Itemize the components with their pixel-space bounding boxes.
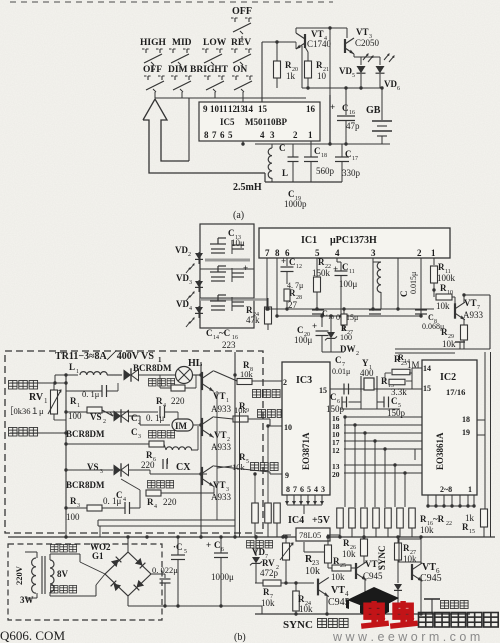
svg-text:0.068μ: 0.068μ — [422, 322, 444, 331]
svg-text:R: R — [318, 257, 325, 267]
svg-text:HIGH: HIGH — [140, 38, 166, 48]
svg-text:10: 10 — [317, 71, 327, 81]
svg-text:47p: 47p — [346, 121, 360, 131]
svg-text:2: 2 — [283, 378, 287, 387]
svg-text:0. 1μ: 0. 1μ — [103, 496, 122, 506]
svg-text:100μ: 100μ — [339, 279, 358, 289]
svg-text:R: R — [316, 60, 323, 70]
svg-text:R: R — [381, 376, 388, 386]
svg-text:0.015μ: 0.015μ — [409, 272, 418, 294]
svg-text:VD: VD — [252, 547, 265, 557]
svg-text:4: 4 — [260, 130, 265, 140]
svg-text:C: C — [279, 143, 286, 153]
svg-text:3W: 3W — [20, 595, 34, 605]
svg-text:R: R — [298, 594, 305, 604]
svg-text:5: 5 — [352, 73, 355, 79]
svg-text:SYNC: SYNC — [377, 545, 387, 570]
svg-text:MID: MID — [172, 38, 192, 48]
svg-text:400: 400 — [360, 368, 374, 378]
svg-text:R: R — [70, 496, 77, 506]
svg-text:VD: VD — [176, 299, 189, 309]
svg-text:VT: VT — [422, 562, 436, 573]
svg-text:2~8: 2~8 — [440, 485, 452, 494]
svg-text:18: 18 — [462, 415, 470, 424]
svg-text:C: C — [228, 228, 235, 238]
svg-text:1: 1 — [76, 369, 79, 375]
svg-text:C2050: C2050 — [355, 38, 380, 48]
svg-text:1: 1 — [468, 485, 472, 494]
svg-text:6: 6 — [397, 86, 400, 92]
svg-text:3: 3 — [371, 248, 376, 258]
svg-text:RV: RV — [262, 558, 275, 568]
svg-text:BCR8DM: BCR8DM — [66, 480, 105, 490]
svg-text:+: + — [333, 264, 338, 274]
svg-text:R: R — [462, 522, 469, 532]
svg-text:G1: G1 — [92, 551, 104, 561]
svg-text:220V: 220V — [14, 565, 24, 585]
svg-text:7: 7 — [265, 248, 270, 258]
svg-text:3: 3 — [189, 280, 192, 286]
svg-text:11: 11 — [349, 269, 355, 275]
svg-text:C945: C945 — [363, 571, 383, 581]
svg-text:8: 8 — [204, 130, 209, 140]
svg-text:220: 220 — [171, 396, 185, 406]
svg-text:20: 20 — [332, 470, 340, 479]
svg-text:10k: 10k — [420, 525, 434, 535]
svg-text:C1740: C1740 — [307, 39, 332, 49]
svg-text:R: R — [263, 587, 270, 597]
svg-text:VT: VT — [214, 430, 227, 440]
svg-text:1000p: 1000p — [284, 199, 307, 209]
svg-text:C945: C945 — [420, 573, 442, 584]
svg-text:C: C — [297, 325, 304, 335]
svg-text:472p: 472p — [260, 568, 279, 578]
svg-text:R: R — [333, 556, 340, 566]
svg-text:VD: VD — [384, 79, 397, 89]
svg-text:CX: CX — [176, 462, 191, 473]
svg-text:+: + — [312, 321, 317, 331]
svg-text:C: C — [131, 413, 138, 423]
svg-text:8V: 8V — [57, 569, 69, 579]
svg-text:10k: 10k — [261, 598, 275, 608]
svg-text:TR11−3≈8A／400V VS: TR11−3≈8A／400V VS — [55, 349, 154, 362]
svg-text:11: 11 — [219, 104, 228, 114]
svg-text:10k: 10k — [342, 549, 356, 559]
svg-text:17: 17 — [352, 156, 358, 162]
svg-text:15: 15 — [258, 104, 268, 114]
svg-text:C: C — [289, 257, 296, 267]
svg-text:IC1: IC1 — [301, 235, 317, 246]
svg-text:R: R — [440, 283, 447, 293]
svg-text:ON: ON — [233, 65, 247, 75]
svg-text:Q606. COM: Q606. COM — [0, 628, 65, 643]
svg-text:1: 1 — [77, 403, 80, 409]
svg-text:VT: VT — [356, 27, 369, 37]
svg-text:RV: RV — [29, 392, 44, 403]
svg-text:C: C — [391, 396, 398, 406]
svg-text:SYNC: SYNC — [283, 619, 313, 631]
svg-text:Y: Y — [362, 358, 369, 368]
svg-text:1: 1 — [431, 248, 436, 258]
svg-text:10k: 10k — [240, 369, 254, 379]
svg-text:25: 25 — [340, 563, 346, 569]
svg-text:C: C — [342, 103, 349, 113]
svg-text:14: 14 — [404, 359, 410, 365]
svg-text:2: 2 — [103, 419, 106, 425]
svg-text:22: 22 — [446, 521, 452, 527]
svg-text:R: R — [343, 538, 350, 548]
svg-text:A933: A933 — [463, 310, 483, 320]
svg-text:47k: 47k — [246, 315, 260, 325]
svg-text:100: 100 — [340, 333, 352, 342]
svg-text:220: 220 — [141, 460, 155, 470]
svg-text:10k: 10k — [234, 405, 248, 415]
svg-text:IC4: IC4 — [288, 515, 304, 526]
svg-text:2: 2 — [188, 252, 191, 258]
svg-text:330p: 330p — [342, 168, 361, 178]
svg-text:6: 6 — [220, 130, 225, 140]
svg-text:IM: IM — [175, 421, 188, 431]
svg-text:560p: 560p — [316, 166, 335, 176]
svg-text:2: 2 — [293, 130, 298, 140]
svg-text:0.01μ: 0.01μ — [332, 367, 350, 376]
svg-text:+: + — [330, 102, 335, 112]
svg-text:8: 8 — [275, 248, 280, 258]
svg-text:R: R — [239, 452, 246, 462]
svg-text:~R: ~R — [433, 514, 445, 524]
svg-text:10k: 10k — [331, 572, 345, 582]
svg-text:4: 4 — [335, 248, 340, 258]
svg-text:5: 5 — [307, 485, 311, 494]
svg-text:3: 3 — [270, 130, 275, 140]
svg-text:+: + — [281, 256, 286, 266]
svg-text:1: 1 — [44, 397, 48, 405]
svg-text:L: L — [69, 362, 75, 372]
svg-text:EO3861A: EO3861A — [435, 432, 445, 470]
svg-text:C: C — [399, 291, 409, 298]
svg-text:BRIGHT: BRIGHT — [190, 65, 229, 75]
svg-text:C: C — [335, 355, 342, 365]
svg-text:(b): (b) — [234, 632, 246, 643]
svg-text:100: 100 — [66, 512, 80, 522]
svg-text:10k: 10k — [436, 301, 450, 311]
svg-text:M50110BP: M50110BP — [245, 117, 288, 127]
svg-text:R: R — [438, 262, 445, 272]
svg-text:10k: 10k — [442, 339, 456, 349]
svg-text:1k: 1k — [286, 71, 296, 81]
svg-text:VD: VD — [339, 66, 352, 76]
svg-text:VT: VT — [331, 585, 345, 596]
svg-text:2: 2 — [356, 351, 359, 357]
svg-text:+: + — [206, 540, 211, 550]
svg-text:5: 5 — [184, 549, 187, 555]
svg-text:LOW: LOW — [203, 38, 227, 48]
svg-text:8: 8 — [286, 485, 290, 494]
svg-text:12: 12 — [332, 446, 340, 455]
svg-text:4: 4 — [154, 504, 157, 510]
svg-text:12: 12 — [296, 264, 302, 270]
svg-text:R: R — [156, 396, 163, 406]
svg-text:+5V: +5V — [312, 515, 331, 526]
svg-text:15: 15 — [319, 386, 327, 395]
svg-text:IC3: IC3 — [296, 375, 312, 386]
svg-text:220: 220 — [163, 497, 177, 507]
svg-text:VD: VD — [176, 273, 189, 283]
svg-text:223: 223 — [222, 340, 236, 350]
svg-text:C: C — [214, 540, 221, 550]
svg-text:6: 6 — [300, 485, 304, 494]
svg-text:4: 4 — [189, 306, 192, 312]
svg-text:18: 18 — [321, 153, 327, 159]
svg-text:C: C — [288, 189, 295, 199]
svg-text:10k: 10k — [305, 566, 320, 577]
svg-text:5: 5 — [246, 459, 249, 465]
svg-text:C: C — [314, 146, 321, 156]
svg-text:R: R — [70, 396, 77, 406]
svg-text:2.5mH: 2.5mH — [233, 182, 262, 193]
svg-text:78L05: 78L05 — [299, 530, 321, 540]
svg-text:C: C — [131, 427, 138, 437]
svg-text:9: 9 — [285, 471, 289, 480]
svg-text:15: 15 — [423, 384, 431, 393]
svg-text:R: R — [420, 514, 427, 524]
svg-text:VT: VT — [464, 298, 477, 308]
svg-text:GB: GB — [366, 105, 381, 116]
svg-text:17/16: 17/16 — [446, 387, 465, 397]
svg-text:VT: VT — [213, 480, 226, 490]
svg-text:EO3871A: EO3871A — [301, 432, 311, 470]
svg-text:A933: A933 — [211, 492, 231, 502]
svg-text:C: C — [345, 149, 352, 159]
svg-text:REV: REV — [231, 38, 251, 48]
svg-text:C: C — [330, 392, 337, 402]
svg-text:100k: 100k — [437, 273, 456, 283]
svg-text:VT: VT — [213, 391, 226, 401]
svg-text:IC5: IC5 — [220, 117, 235, 127]
svg-text:1000μ: 1000μ — [211, 572, 234, 582]
svg-text:19: 19 — [462, 428, 470, 437]
svg-text:7: 7 — [212, 130, 217, 140]
svg-text:R: R — [403, 543, 410, 553]
svg-text:7: 7 — [293, 485, 297, 494]
svg-text:100μ: 100μ — [294, 335, 313, 345]
svg-text:R: R — [146, 450, 153, 460]
svg-text:14: 14 — [423, 364, 431, 373]
svg-text:(a): (a) — [233, 210, 244, 221]
svg-text:w w w . e e w o r m . c o m: w w w . e e w o r m . c o m — [332, 630, 480, 643]
svg-text:5: 5 — [228, 130, 233, 140]
svg-text:μPC1373H: μPC1373H — [330, 235, 377, 246]
svg-text:OFF: OFF — [232, 6, 252, 17]
svg-text:0. 1μ: 0. 1μ — [82, 389, 100, 399]
svg-text:10k: 10k — [299, 604, 313, 614]
svg-text:VT: VT — [365, 559, 378, 569]
svg-text:9: 9 — [203, 104, 208, 114]
svg-text:VT: VT — [311, 29, 324, 39]
svg-text:R: R — [147, 497, 154, 507]
svg-text:2: 2 — [417, 248, 422, 258]
svg-text:14: 14 — [244, 104, 254, 114]
svg-text:16: 16 — [349, 110, 355, 116]
svg-text:VD: VD — [175, 245, 188, 255]
svg-text:VS: VS — [90, 412, 102, 422]
svg-text:BCR8DM: BCR8DM — [133, 363, 172, 373]
svg-text:4: 4 — [314, 485, 318, 494]
svg-text:R: R — [285, 60, 292, 70]
svg-text:1: 1 — [308, 130, 313, 140]
svg-text:C: C — [206, 328, 213, 338]
svg-text:L: L — [282, 168, 288, 178]
svg-text:+: + — [243, 263, 248, 273]
svg-text:BCR8DM: BCR8DM — [66, 429, 105, 439]
svg-text:IC2: IC2 — [440, 372, 456, 383]
svg-text:10μ: 10μ — [231, 238, 245, 248]
svg-text:A933: A933 — [211, 404, 231, 414]
svg-text:3: 3 — [321, 485, 325, 494]
svg-text:0. 022μ: 0. 022μ — [152, 565, 178, 575]
svg-text:100: 100 — [68, 411, 82, 421]
svg-text:10k: 10k — [232, 462, 246, 472]
svg-text:R: R — [246, 305, 253, 315]
svg-text:16: 16 — [306, 104, 316, 114]
svg-text:15: 15 — [469, 529, 475, 535]
svg-text:A933: A933 — [211, 442, 231, 452]
svg-text:DIM: DIM — [168, 65, 188, 75]
svg-text:0. 1μ: 0. 1μ — [146, 413, 165, 423]
svg-text:［0k36１μ: ［0k36１μ — [5, 406, 44, 416]
svg-text:10: 10 — [284, 423, 292, 432]
svg-text:3: 3 — [138, 434, 141, 440]
svg-text:~C: ~C — [219, 328, 230, 338]
